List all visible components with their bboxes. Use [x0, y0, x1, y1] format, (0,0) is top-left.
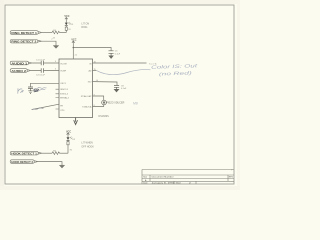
connector RING DETECT 1	[10, 31, 42, 35]
wire VCC to IC top	[72, 43, 74, 59]
wire pin XT to buzzer top	[93, 96, 104, 100]
wire diagonal to CP0	[32, 104, 59, 109]
wire row1	[42, 32, 52, 34]
svg-text:VCOM: VCOM	[60, 63, 67, 65]
wire row5 to LED branch	[60, 152, 69, 154]
ground below C5	[109, 53, 113, 58]
capacitor C5	[109, 51, 114, 54]
svg-text:ISO: ISO	[88, 82, 92, 84]
svg-text:LIT ON: LIT ON	[81, 23, 89, 26]
pencil wavy line to note	[97, 70, 151, 75]
svg-text:14: 14	[96, 80, 98, 82]
svg-text:XT/AL/CAP: XT/AL/CAP	[81, 95, 92, 98]
svg-text:January 8, 1994: January 8, 1994	[152, 183, 176, 185]
IC U1 body	[59, 59, 93, 118]
wire row3	[32, 62, 59, 64]
page border frame	[5, 5, 234, 184]
label C8 0.1uF	[121, 85, 127, 90]
connector RING DETECT 2	[10, 40, 41, 44]
svg-text:Sheet: Sheet	[176, 182, 182, 185]
wire buzzer bottom to pin	[93, 105, 104, 107]
power VCC bottom (D2 branch)	[67, 133, 70, 135]
IC pin stubs left (unconnected)	[56, 89, 60, 109]
junction node	[73, 47, 75, 49]
resistor R3 (box)	[65, 27, 70, 31]
svg-text:ERS/AL4: ERS/AL4	[60, 96, 69, 99]
wire OSC left	[31, 83, 60, 87]
wire row6	[38, 162, 62, 166]
svg-text:C2 0.1uF: C2 0.1uF	[36, 75, 46, 77]
svg-text:2.2: 2.2	[75, 54, 78, 56]
svg-text:HOOK DETECT 2: HOOK DETECT 2	[11, 160, 33, 164]
svg-text:OFF HOOK: OFF HOOK	[81, 145, 94, 148]
svg-text:AD: AD	[89, 70, 92, 73]
wire VCC rail right	[73, 48, 111, 51]
wire VCC to D2	[67, 135, 69, 137]
pencil scribble 3.58MHz	[33, 87, 47, 91]
title block	[142, 170, 234, 185]
svg-text:8: 8	[94, 105, 95, 107]
svg-text:HOOK DETECT 1: HOOK DETECT 1	[11, 152, 37, 156]
capacitor C8	[114, 85, 119, 87]
pin stub AD	[93, 70, 97, 72]
connector HOOK DETECT 2	[10, 160, 38, 164]
capacitor C1	[41, 61, 43, 65]
note LIT WHEN OFF HOOK	[81, 142, 94, 149]
svg-text:VCC: VCC	[71, 39, 76, 42]
svg-text:9: 9	[94, 94, 95, 96]
svg-text:0.1uF: 0.1uF	[115, 53, 121, 55]
LED D2	[67, 137, 73, 141]
svg-text:3: 3	[55, 68, 56, 70]
power VCC mid	[72, 41, 75, 43]
svg-text:R4: R4	[70, 149, 72, 151]
wire pin ISO right to C8	[93, 82, 118, 86]
ground arrow row2	[53, 46, 59, 49]
connector AUDIO 2	[10, 69, 31, 73]
piezo transducer Y1	[102, 100, 107, 105]
svg-text:Document Number: Document Number	[152, 175, 174, 178]
wire D1 chain down to row1	[65, 26, 67, 33]
svg-text:REV: REV	[229, 176, 234, 178]
wire row2	[42, 41, 57, 45]
wire pin IN right	[93, 62, 147, 64]
svg-text:RING: RING	[81, 26, 87, 29]
svg-text:AUDIO 1: AUDIO 1	[11, 62, 28, 66]
crystal capacitor X1	[28, 87, 33, 88]
ground below X1	[28, 88, 32, 93]
wire row5	[42, 152, 52, 154]
svg-text:4: 4	[55, 61, 56, 63]
paper background	[0, 0, 240, 190]
resistor R1	[52, 31, 60, 34]
svg-text:XT/AL/CA: XT/AL/CA	[82, 105, 92, 108]
svg-text:15: 15	[94, 69, 96, 71]
resistor R4 (box)	[67, 142, 72, 152]
wire VCC to D1	[65, 20, 67, 23]
svg-text:AUDIO 2: AUDIO 2	[11, 69, 26, 73]
svg-text:VCC: VCC	[64, 15, 69, 18]
wire row4	[31, 70, 59, 72]
svg-text:2: 2	[51, 39, 52, 41]
svg-text:DS1669S: DS1669S	[99, 115, 110, 118]
LED D1	[65, 22, 71, 26]
svg-text:EXI/CL4: EXI/CL4	[60, 94, 69, 96]
svg-text:OSC1: OSC1	[60, 83, 67, 85]
svg-text:RING DETECT 2: RING DETECT 2	[11, 40, 37, 44]
pencil dark tick	[34, 89, 39, 92]
wire D2 chain to row5	[67, 140, 69, 153]
svg-text:M8: M8	[133, 101, 138, 105]
pencil mark left	[18, 88, 24, 93]
svg-text:PIEZO XDUCER: PIEZO XDUCER	[106, 102, 124, 105]
note LIT ON RING	[81, 23, 89, 30]
connector AUDIO 1	[10, 61, 32, 65]
pencil scribble on diagonal	[32, 108, 44, 110]
svg-text:Date:: Date:	[143, 182, 148, 185]
wire row1 to LED branch	[60, 32, 67, 34]
power VCC top (D1 branch)	[65, 17, 68, 19]
ground below C8	[114, 87, 118, 92]
svg-text:VCMP: VCMP	[60, 71, 67, 73]
ground IC bottom	[74, 118, 78, 125]
IC left pin labels	[60, 63, 69, 112]
svg-text:RING DETECT 1: RING DETECT 1	[11, 31, 37, 35]
title block labels	[143, 175, 233, 184]
connector HOOK DETECT 1	[10, 151, 42, 155]
ground arrow row6	[59, 165, 64, 168]
resistor R2	[52, 152, 60, 155]
svg-text:R3: R3	[68, 29, 70, 31]
svg-text:LIT WHEN: LIT WHEN	[81, 142, 93, 145]
svg-text:VCC: VCC	[66, 130, 71, 133]
svg-text:0.1uF: 0.1uF	[121, 88, 127, 90]
svg-text:16: 16	[94, 61, 96, 63]
IC right pin labels	[81, 63, 92, 108]
svg-text:ISN/CL1: ISN/CL1	[60, 89, 69, 91]
capacitor C2	[41, 68, 43, 72]
handwritten note Color IS: Out	[151, 63, 198, 77]
svg-text:C1 0.1uF: C1 0.1uF	[36, 60, 46, 62]
label C5 0.1uF	[115, 51, 121, 56]
